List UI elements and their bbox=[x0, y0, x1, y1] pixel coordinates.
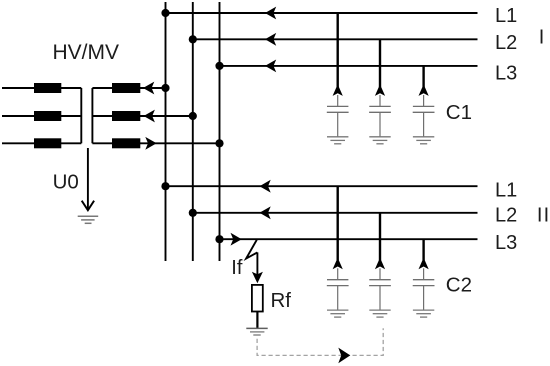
wire feeder I phase L1 bbox=[166, 12, 478, 14]
svg-text:C2: C2 bbox=[446, 273, 472, 296]
svg-text:L1: L1 bbox=[495, 5, 517, 27]
wire dashed fault return path bbox=[257, 328, 383, 355]
wire busbar section 3 bbox=[219, 2, 221, 261]
ground neutral bbox=[78, 216, 99, 223]
arrow current feeder I L3 bbox=[265, 60, 276, 73]
capacitor C1 phase L3 branch bbox=[413, 66, 435, 137]
svg-text:I: I bbox=[539, 27, 545, 49]
node junction feeder I L2 bbox=[189, 35, 197, 43]
ground C2 phase L3 bbox=[413, 310, 434, 317]
svg-text:II: II bbox=[537, 205, 550, 227]
wire busbar section 1 bbox=[165, 2, 167, 261]
wire feeder I phase L3 bbox=[220, 65, 478, 67]
arrow fault return current bbox=[338, 348, 350, 364]
svg-text:Rf: Rf bbox=[271, 289, 292, 312]
arrow current feeder I L1 bbox=[265, 7, 276, 20]
wire busbar section 2 bbox=[192, 2, 194, 261]
ground C1 phase L3 bbox=[413, 137, 434, 144]
node junction secondary phase 3 to bus bbox=[215, 139, 223, 147]
arrow current feeder II L1 bbox=[260, 180, 271, 193]
ground C2 phase L1 bbox=[327, 310, 348, 317]
svg-text:If: If bbox=[231, 257, 243, 279]
svg-text:L2: L2 bbox=[495, 205, 517, 227]
transformer T1 secondary winding phase 2 bbox=[92, 111, 192, 121]
wire feeder I phase L2 bbox=[193, 38, 478, 40]
node junction secondary phase 2 to bus bbox=[189, 112, 197, 120]
ground C1 phase L1 bbox=[327, 137, 348, 144]
node junction feeder II L3 bbox=[215, 235, 223, 243]
resistor Rf bbox=[252, 285, 263, 312]
ground fault return bbox=[246, 328, 267, 335]
capacitor C1 phase L2 branch bbox=[369, 39, 391, 137]
svg-text:L1: L1 bbox=[495, 180, 517, 202]
capacitor C2 phase L1 branch bbox=[327, 186, 349, 310]
arrow fault current on feeder II L3 bbox=[231, 233, 242, 246]
capacitor C2 phase L2 branch bbox=[369, 213, 391, 310]
wire secondary star point bbox=[91, 88, 93, 143]
transformer T1 primary winding phase 3 bbox=[2, 138, 81, 148]
transformer T1 primary winding phase 2 bbox=[2, 111, 81, 121]
arrow current out of secondary phase 3 bbox=[145, 137, 156, 150]
transformer T1 primary winding phase 1 bbox=[2, 83, 81, 93]
arrow current into secondary phase 2 bbox=[144, 110, 155, 123]
svg-text:L3: L3 bbox=[495, 232, 517, 254]
wire fault current path If bbox=[256, 252, 258, 274]
transformer T1 secondary winding phase 1 bbox=[92, 83, 165, 93]
transformer T1 secondary winding phase 3 bbox=[92, 138, 219, 148]
arrow U0 pointing to ground bbox=[82, 201, 94, 211]
ground C1 phase L2 bbox=[369, 137, 390, 144]
svg-text:L3: L3 bbox=[495, 62, 517, 84]
svg-text:L2: L2 bbox=[495, 32, 517, 54]
wire neutral point voltage U0 bbox=[87, 148, 89, 209]
svg-text:C1: C1 bbox=[446, 101, 472, 124]
node junction feeder I L1 bbox=[161, 9, 169, 17]
node junction feeder I L3 bbox=[215, 62, 223, 70]
arrow fault current If down bbox=[252, 272, 263, 284]
node junction feeder II L1 bbox=[161, 182, 169, 190]
svg-text:U0: U0 bbox=[53, 170, 79, 193]
svg-text:HV/MV: HV/MV bbox=[53, 41, 120, 64]
wire feeder II phase L2 bbox=[193, 212, 478, 214]
node junction secondary phase 1 to bus bbox=[161, 84, 169, 92]
arrow current into secondary phase 1 bbox=[143, 82, 154, 95]
wire feeder II phase L3 bbox=[220, 238, 478, 240]
arrow current feeder II L2 bbox=[260, 206, 271, 219]
wire primary star point bbox=[80, 88, 82, 143]
ground C2 phase L2 bbox=[369, 310, 390, 317]
capacitor C2 phase L3 branch bbox=[413, 239, 435, 310]
earth fault flash symbol bbox=[246, 240, 257, 259]
wire resistor to ground bbox=[256, 312, 258, 329]
wire feeder II phase L1 bbox=[166, 185, 478, 187]
capacitor C1 phase L1 branch bbox=[327, 13, 349, 137]
node junction feeder II L2 bbox=[189, 209, 197, 217]
arrow current feeder I L2 bbox=[265, 33, 276, 46]
